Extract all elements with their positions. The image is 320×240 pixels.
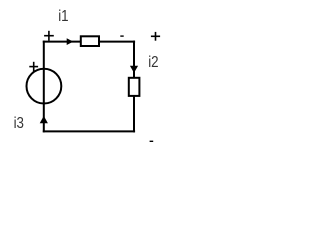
wire left (43, 41, 45, 133)
plus sign (source + terminal) (29, 62, 38, 72)
current arrow i3 (points up) (40, 116, 48, 123)
svg-text:i3: i3 (14, 115, 24, 132)
minus sign (R2 bottom polarity) (150, 140, 154, 142)
plus sign (R1 left polarity) (44, 31, 54, 41)
svg-text:i1: i1 (58, 8, 68, 25)
resistor R1 (top box) (81, 36, 99, 46)
wire bottom (43, 130, 135, 132)
svg-text:i2: i2 (148, 54, 158, 71)
minus sign (R1 right polarity) (120, 35, 123, 37)
resistor R2 (right box) (129, 78, 140, 96)
current arrow i2 (points down) (130, 66, 138, 73)
wire right (133, 41, 135, 133)
plus sign (R2 top polarity) (151, 32, 160, 41)
current arrow i1 (points right) (67, 38, 74, 45)
voltage source V (circle) (27, 69, 62, 104)
wire top (43, 41, 135, 43)
